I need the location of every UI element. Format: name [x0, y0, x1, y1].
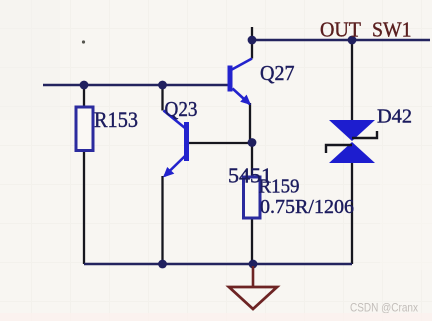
svg-text:R153: R153 [94, 107, 138, 132]
svg-text:0.75R/1206: 0.75R/1206 [260, 196, 354, 218]
svg-text:R159: R159 [259, 176, 300, 198]
svg-text:CSDN @Cranx: CSDN @Cranx [350, 301, 418, 315]
svg-text:OUT: OUT [320, 18, 361, 42]
svg-text:Q23: Q23 [165, 97, 198, 121]
svg-text:SW1: SW1 [372, 18, 412, 42]
svg-text:D42: D42 [377, 106, 412, 128]
svg-text:Q27: Q27 [260, 61, 295, 85]
